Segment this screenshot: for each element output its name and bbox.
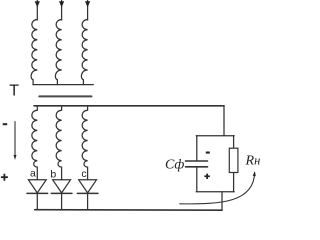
diode a	[27, 180, 48, 210]
label minus (capacitor)	[206, 152, 210, 154]
label minus (left)	[3, 123, 8, 125]
label plus (left)	[1, 174, 8, 181]
svg-text:c: c	[81, 168, 86, 180]
transformer T primary winding 2	[55, 20, 61, 85]
transformer secondary winding c	[82, 106, 87, 180]
phase input arrow 1	[35, 1, 40, 21]
svg-text:a: a	[30, 168, 36, 180]
phase input arrow 3	[85, 1, 90, 21]
wire: resistor branch lower	[233, 173, 235, 192]
svg-text:b: b	[50, 168, 56, 180]
transformer secondary winding a	[32, 106, 37, 180]
wire: capacitor branch upper	[196, 136, 198, 161]
resistor Rн body	[229, 148, 238, 172]
wire: primary common connector	[33, 84, 93, 86]
wire: cathode bus (plus output)	[35, 209, 222, 212]
capacitor Сф plates	[186, 161, 208, 167]
transformer core	[39, 95, 91, 97]
label plus (capacitor)	[204, 174, 209, 179]
svg-text:T: T	[9, 82, 19, 99]
transformer T primary winding 1	[31, 20, 37, 85]
wire: load bottom to bus	[221, 192, 223, 210]
wire: resistor branch upper	[233, 136, 235, 148]
wire: load loop top edge	[196, 135, 234, 137]
diode c	[77, 180, 98, 210]
svg-text:Сф: Сф	[165, 158, 184, 173]
current arrow (curved)	[180, 173, 255, 204]
phase input arrow 2	[59, 1, 64, 21]
wire: secondary star bus (minus output)	[34, 105, 224, 107]
diode b	[51, 180, 72, 210]
wire: load loop bottom edge	[196, 191, 234, 193]
transformer T primary winding 3	[81, 20, 87, 85]
output polarity arrow (left)	[14, 122, 16, 157]
wire: bus to load top	[223, 106, 225, 136]
wire: capacitor branch lower	[196, 167, 198, 192]
transformer secondary winding b	[56, 106, 61, 180]
svg-text:Rн: Rн	[245, 154, 261, 169]
